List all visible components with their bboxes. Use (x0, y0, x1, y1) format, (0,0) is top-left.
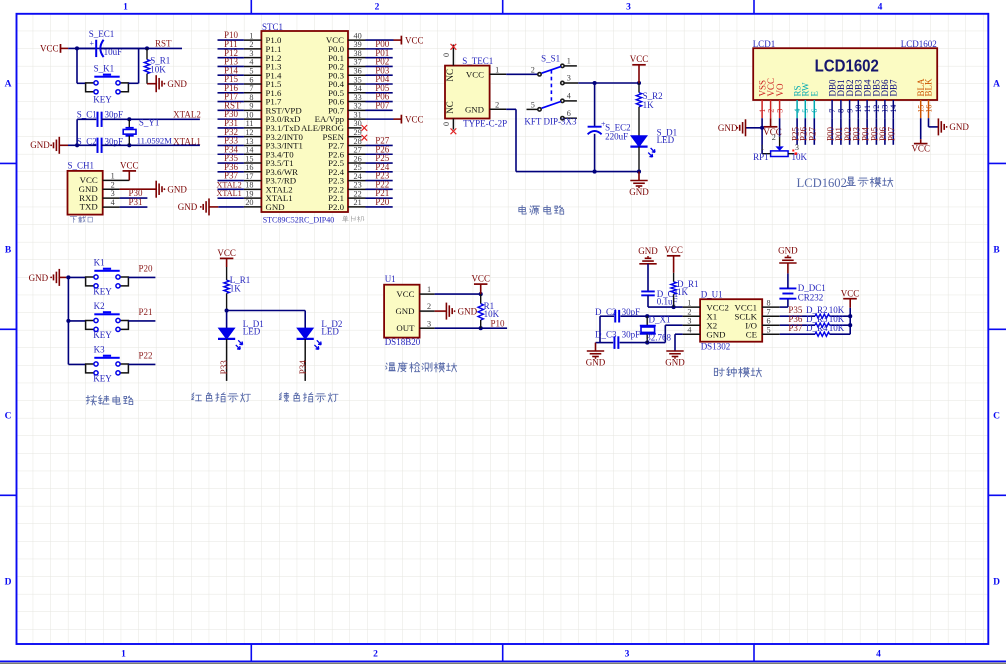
junction XTAL2 node (127, 117, 131, 121)
ground (LCD VSS) (746, 127, 763, 129)
svg-text:3: 3 (427, 319, 431, 328)
wire XTAL2 (129, 118, 200, 120)
bottom zone separator ticks (250, 644, 252, 661)
junction at capacitor branch (593, 81, 597, 85)
svg-text:KEY: KEY (93, 287, 112, 297)
svg-text:KEY: KEY (93, 94, 112, 104)
svg-text:VCC: VCC (911, 144, 930, 154)
svg-text:3: 3 (567, 74, 571, 83)
svg-text:4: 4 (249, 58, 253, 67)
svg-text:10: 10 (854, 105, 863, 113)
svg-text:11.0592M: 11.0592M (137, 136, 173, 146)
svg-text:VO: VO (775, 83, 785, 96)
svg-text:GND: GND (395, 306, 414, 316)
svg-text:1: 1 (111, 171, 115, 180)
svg-text:LED: LED (243, 327, 261, 337)
capacitor S_EC2 220uF (594, 83, 596, 127)
svg-text:S_EC1: S_EC1 (89, 29, 115, 39)
switch blade 2-1 (542, 67, 561, 74)
svg-text:6: 6 (767, 316, 771, 325)
ground (reset circuit) (147, 83, 156, 85)
power port VCC (pin 31) (400, 115, 402, 124)
svg-text:K1: K1 (94, 258, 105, 268)
power port VCC (indicators) (220, 257, 234, 259)
svg-text:2: 2 (531, 65, 535, 74)
svg-text:2: 2 (766, 109, 775, 113)
keys gnd rail (67, 277, 69, 364)
svg-text:14: 14 (245, 146, 253, 155)
svg-text:1: 1 (123, 3, 128, 13)
svg-text:34: 34 (354, 84, 362, 93)
wire gnd rail up to S_C1 (76, 119, 78, 145)
svg-text:1K: 1K (677, 287, 689, 297)
svg-text:0: 0 (442, 53, 451, 57)
pin 2 wire (left) (683, 315, 701, 317)
svg-text:16: 16 (924, 105, 933, 113)
crystal D_X1 32.768 (646, 316, 648, 325)
pin 4 wire (left) (683, 333, 701, 335)
battery D_DC1 CR232 (780, 306, 788, 308)
svg-text:GND: GND (167, 79, 187, 89)
svg-text:GND: GND (586, 358, 606, 368)
svg-text:10K: 10K (829, 323, 845, 333)
wire pin6 to resistor D_R3 (780, 324, 815, 326)
svg-text:+: + (90, 39, 95, 48)
svg-text:D: D (5, 578, 12, 588)
svg-text:OUT: OUT (396, 323, 415, 333)
svg-text:6: 6 (810, 109, 819, 113)
svg-text:32: 32 (354, 102, 362, 111)
wire X2 to chip (665, 324, 682, 326)
svg-text:VCC: VCC (841, 289, 860, 299)
pin 1 wire (VCC out) (490, 73, 507, 75)
junction at bottom rail (cap) (593, 170, 597, 174)
power port VCC (download port) (123, 170, 137, 172)
svg-text:7: 7 (767, 307, 771, 316)
switch stub pin 4 (564, 100, 577, 102)
section label 温度检测模块 (386, 362, 457, 372)
svg-text:NC: NC (445, 101, 455, 114)
svg-text:5: 5 (249, 67, 253, 76)
svg-text:GND: GND (458, 306, 478, 316)
section label 红色指示灯 (192, 393, 251, 402)
svg-text:0.1uF: 0.1uF (657, 297, 678, 307)
svg-text:30pF: 30pF (105, 109, 124, 119)
svg-text:1K: 1K (230, 284, 242, 294)
wire battery to gnd (787, 273, 789, 288)
svg-text:P37: P37 (224, 171, 239, 181)
inverted ground above D_C1 (639, 263, 656, 265)
svg-text:29: 29 (354, 128, 362, 137)
svg-text:23: 23 (354, 181, 362, 190)
svg-text:E: E (810, 91, 820, 97)
svg-text:9: 9 (249, 102, 253, 111)
svg-text:2: 2 (375, 3, 380, 13)
svg-text:5: 5 (767, 325, 771, 334)
svg-text:P33: P33 (219, 360, 229, 375)
svg-text:19: 19 (245, 189, 253, 198)
wire X1 to crystal (647, 315, 682, 317)
svg-text:26: 26 (354, 154, 362, 163)
svg-text:5: 5 (801, 109, 810, 113)
svg-text:GND: GND (30, 140, 50, 150)
svg-text:D_C2: D_C2 (595, 307, 617, 317)
junction keys gnd (66, 275, 70, 279)
resistor S_R2 1K (638, 83, 640, 93)
svg-text:1: 1 (567, 56, 571, 65)
svg-text:VCC: VCC (40, 43, 59, 53)
svg-text:10K: 10K (484, 309, 500, 319)
svg-text:S_K1: S_K1 (94, 64, 115, 74)
svg-text:P20: P20 (375, 197, 390, 207)
svg-text:CR232: CR232 (798, 292, 824, 302)
svg-text:28: 28 (354, 137, 362, 146)
svg-text:10: 10 (245, 110, 253, 119)
svg-text:D_U1: D_U1 (701, 290, 723, 300)
svg-text:35: 35 (354, 75, 362, 84)
svg-text:9: 9 (845, 109, 854, 113)
svg-text:27: 27 (354, 146, 362, 155)
svg-text:RP1: RP1 (753, 152, 769, 162)
resistor D_R3 10K (815, 323, 830, 327)
svg-text:1: 1 (687, 298, 691, 307)
svg-text:10K: 10K (150, 65, 166, 75)
svg-text:6: 6 (249, 75, 253, 84)
svg-text:VCC: VCC (217, 248, 236, 258)
svg-text:3: 3 (111, 189, 115, 198)
pin 0 stub top with no-ERC cross (452, 45, 454, 66)
svg-text:13: 13 (245, 137, 253, 146)
junction at switch branch (75, 46, 79, 50)
svg-text:GND: GND (465, 104, 484, 114)
svg-text:220uF: 220uF (605, 131, 628, 141)
junction at VCC port (637, 81, 641, 85)
svg-text:VCC: VCC (630, 54, 649, 64)
power port VCC (DS18B20) (474, 283, 488, 285)
svg-text:4: 4 (687, 325, 691, 334)
power port VCC (power circuit) (632, 64, 646, 66)
inverted ground above battery (779, 262, 796, 264)
svg-text:3: 3 (625, 650, 630, 660)
svg-text:P31: P31 (129, 197, 143, 207)
wire L_D2 to P34 (304, 339, 306, 381)
svg-text:2: 2 (495, 100, 499, 109)
junction at capacitor/resistor node (145, 46, 149, 50)
svg-text:2: 2 (687, 307, 691, 316)
svg-text:KFT DIP-3X3: KFT DIP-3X3 (524, 117, 577, 127)
svg-text:BLK: BLK (924, 78, 934, 97)
wire to green LED branch (227, 310, 306, 312)
junction D_R1/pin1 (672, 305, 676, 309)
pin 3 wire P30 (103, 197, 120, 199)
svg-text:S_CH1: S_CH1 (68, 161, 95, 171)
wire D_C1 to pin1 (647, 295, 649, 307)
svg-text:LCD1602: LCD1602 (815, 55, 880, 75)
pin 8 wire (right) (762, 306, 780, 308)
section label 单片机 (342, 216, 364, 222)
svg-text:7: 7 (828, 109, 837, 113)
switch gang dashed link (550, 70, 552, 105)
pin 6 wire (right) (762, 324, 780, 326)
svg-text:GND: GND (178, 202, 198, 212)
svg-text:4: 4 (876, 650, 881, 660)
ground (DS18B20) (435, 310, 447, 312)
section label 下载口 (70, 216, 92, 222)
svg-text:3: 3 (775, 109, 784, 113)
svg-text:GND: GND (266, 202, 285, 212)
power port VCC (pullups) (843, 298, 857, 300)
svg-text:P27: P27 (808, 126, 818, 141)
section label 电源电路 (519, 205, 564, 214)
svg-text:21: 21 (354, 198, 362, 207)
svg-text:D_X1: D_X1 (649, 314, 671, 324)
VCC pullup rail (849, 308, 851, 334)
LCD BLK wire to gnd (928, 118, 930, 127)
section label 绿色指示灯 (279, 393, 338, 402)
LCD VO wire to potentiometer wiper (779, 118, 781, 137)
wire pin7 to resistor D_R2 (780, 315, 815, 317)
pin 1 wire (left) (683, 306, 701, 308)
svg-text:K2: K2 (94, 301, 105, 311)
svg-text:2: 2 (427, 302, 431, 311)
svg-text:3: 3 (687, 316, 691, 325)
svg-text:2: 2 (249, 40, 253, 49)
wire L_D1 to P33 (226, 339, 228, 381)
pin 7 wire (right) (762, 315, 780, 317)
svg-text:GND: GND (706, 330, 725, 340)
svg-text:11: 11 (863, 105, 872, 113)
svg-text:GND: GND (665, 358, 685, 368)
svg-text:S_C1: S_C1 (77, 109, 97, 119)
svg-text:GND: GND (718, 123, 738, 133)
ground (LCD BLK) (937, 118, 939, 135)
svg-text:30pF: 30pF (622, 307, 641, 317)
ground (crystal caps) (596, 342, 601, 344)
svg-text:20: 20 (245, 198, 253, 207)
resistor S_R1 10K (146, 48, 148, 59)
pin 4 wire P31 (103, 206, 120, 208)
wire VCC to RST node (68, 47, 182, 49)
svg-text:C: C (5, 412, 12, 422)
switch blade 5-4 (542, 102, 561, 109)
svg-text:VCC: VCC (471, 274, 490, 284)
ground (power circuit) (638, 172, 640, 181)
LCD pin wires 4-14 with net labels (796, 118, 798, 145)
junction rail P35 (848, 314, 852, 318)
pin 1 wire (VCC) (103, 179, 130, 181)
svg-text:4: 4 (111, 198, 115, 207)
svg-text:GND: GND (29, 273, 49, 283)
svg-text:XTAL2: XTAL2 (173, 109, 201, 119)
junction VCC node (479, 292, 483, 296)
pin 5 wire (right) (762, 333, 780, 335)
svg-text:TXD: TXD (80, 202, 98, 212)
svg-text:16: 16 (245, 163, 253, 172)
LCD1602 box (753, 48, 937, 100)
svg-text:GND: GND (778, 245, 798, 255)
svg-text:22: 22 (354, 189, 362, 198)
junction at bottom rail (LED) (637, 170, 641, 174)
svg-text:TYPE-C-2P: TYPE-C-2P (463, 118, 507, 128)
resistor D_R1 1K (673, 273, 675, 282)
junction OUT node (479, 326, 483, 330)
svg-text:STC89C52RC_DIP40: STC89C52RC_DIP40 (263, 215, 335, 224)
resistor D_R2 10K (815, 314, 830, 318)
svg-text:XTAL2: XTAL2 (217, 180, 242, 189)
svg-text:4: 4 (567, 91, 571, 100)
svg-text:LED: LED (657, 135, 675, 145)
svg-text:8: 8 (837, 109, 846, 113)
svg-text:RST: RST (155, 38, 172, 48)
svg-text:P37: P37 (788, 323, 803, 333)
no-ERC cross pin 30 (361, 125, 367, 131)
left zone separator ticks (0, 162, 17, 164)
svg-text:GND: GND (629, 187, 649, 197)
LCD VSS wire to gnd (761, 118, 763, 154)
capacitor S_EC1 10uF (77, 47, 96, 49)
svg-text:XTAL1: XTAL1 (173, 137, 201, 147)
bottom zone row line (0, 660, 1006, 662)
LED L_D1 (red indicator) (219, 328, 235, 339)
svg-text:P2.0: P2.0 (328, 202, 344, 212)
pin 1 wire (VCC) (420, 293, 435, 295)
svg-text:38: 38 (354, 49, 362, 58)
pin 2 wire (GND out) (490, 108, 507, 110)
svg-text:CE: CE (746, 330, 757, 340)
wire chip GND pin4 (675, 333, 683, 335)
svg-text:1: 1 (760, 143, 764, 152)
svg-text:0: 0 (442, 122, 451, 126)
svg-text:S_Y1: S_Y1 (139, 118, 160, 128)
svg-text:VCC: VCC (405, 35, 424, 45)
svg-text:S_TEC1: S_TEC1 (462, 56, 493, 66)
switch stub pin 6 (564, 117, 577, 119)
svg-text:8: 8 (249, 93, 253, 102)
junction X1 node (645, 314, 649, 318)
junction VSS/gnd (760, 126, 764, 130)
svg-text:3: 3 (249, 49, 253, 58)
section label 按键电路 (86, 395, 133, 405)
svg-text:3: 3 (795, 143, 799, 152)
pin 20 wire and ground (244, 206, 262, 208)
wire XTAL1 (129, 144, 200, 146)
svg-text:DS18B20: DS18B20 (385, 337, 421, 347)
resistor D_R4 10K (815, 332, 830, 336)
svg-text:30pF: 30pF (622, 330, 641, 340)
power port VCC (pin 40) (400, 36, 402, 45)
svg-text:B: B (993, 246, 1000, 256)
section label 时钟模块 (714, 367, 761, 377)
pin 3 wire (OUT) to P10 (420, 327, 435, 329)
svg-text:KEY: KEY (93, 374, 112, 384)
pin 2 wire (GND) (420, 310, 435, 312)
svg-text:15: 15 (245, 154, 253, 163)
resistor R1 10K pullup (480, 294, 482, 304)
svg-text:P21: P21 (139, 307, 153, 317)
svg-text:1K: 1K (643, 100, 655, 110)
svg-text:4: 4 (878, 3, 883, 13)
svg-text:3: 3 (626, 3, 631, 13)
wire gnd down to bottom rail (515, 109, 517, 171)
svg-text:LED: LED (321, 327, 339, 337)
svg-text:37: 37 (354, 58, 362, 67)
svg-text:GND: GND (167, 184, 187, 194)
svg-text:25: 25 (354, 163, 362, 172)
wire switch pin3 to VCC node (564, 82, 578, 84)
pin 0 stub bottom with no-ERC cross (452, 119, 454, 130)
LED S_D1 (631, 136, 647, 147)
power port VCC (LCD pin2) (770, 118, 772, 127)
svg-text:11: 11 (246, 119, 254, 128)
svg-text:17: 17 (245, 172, 253, 181)
svg-text:VCC: VCC (405, 114, 424, 124)
svg-text:VCC: VCC (120, 160, 139, 170)
svg-text:18: 18 (245, 181, 253, 190)
junction XTAL1 node (127, 143, 131, 147)
svg-text:P22: P22 (139, 351, 153, 361)
crystal S_Y1 11.0592M (128, 119, 130, 128)
svg-text:VCC: VCC (466, 70, 484, 80)
LED L_D2 (green indicator) (297, 328, 313, 339)
svg-text:2: 2 (772, 133, 776, 142)
svg-text:GND: GND (949, 122, 969, 132)
switch stub pin 1 (564, 65, 577, 67)
svg-text:1: 1 (495, 66, 499, 75)
wire to red LED (226, 311, 228, 329)
svg-text:P10: P10 (491, 318, 506, 328)
svg-text:8: 8 (767, 298, 771, 307)
svg-text:K3: K3 (94, 345, 105, 355)
svg-text:1: 1 (249, 31, 253, 40)
svg-text:12: 12 (245, 128, 253, 137)
ground (download port) (120, 188, 157, 190)
svg-text:P07: P07 (375, 100, 390, 110)
wire K2 to P21 (128, 320, 155, 322)
svg-text:31: 31 (354, 110, 362, 119)
wire K3 to P22 (128, 363, 155, 365)
LCD BLA wire to VCC (920, 118, 922, 139)
svg-text:LCD1602: LCD1602 (797, 176, 847, 190)
no-ERC cross pin 29 (361, 135, 367, 141)
svg-text:24: 24 (354, 172, 362, 181)
left rail of crystal caps (599, 316, 601, 342)
junction key K2 branch (66, 319, 70, 323)
svg-text:VCC: VCC (664, 245, 683, 255)
svg-text:DS1302: DS1302 (701, 342, 731, 352)
svg-text:1: 1 (427, 285, 431, 294)
svg-text:P34: P34 (298, 360, 308, 375)
pin 2 wire (GND) (103, 188, 120, 190)
junction crystal gnd (75, 143, 79, 147)
right zone separator ticks (988, 162, 1006, 164)
svg-text:NC: NC (445, 69, 455, 82)
wire pin5 to resistor D_R4 (780, 333, 815, 335)
svg-text:B: B (5, 246, 12, 256)
svg-text:32.768: 32.768 (646, 332, 671, 342)
power port VCC (clock) (667, 255, 681, 257)
svg-text:KEY: KEY (93, 330, 112, 340)
junction X2 node (645, 341, 649, 345)
capacitor D_C1 0.1uF (641, 290, 655, 292)
svg-text:GND: GND (638, 246, 658, 256)
pin 3 wire (left) (683, 324, 701, 326)
svg-text:P07: P07 (887, 126, 897, 141)
switch stub pin 5 (527, 108, 538, 110)
svg-text:1: 1 (121, 650, 126, 660)
svg-text:C: C (993, 412, 1000, 422)
svg-text:S_S1: S_S1 (541, 53, 560, 63)
junction LED branch (225, 308, 229, 312)
